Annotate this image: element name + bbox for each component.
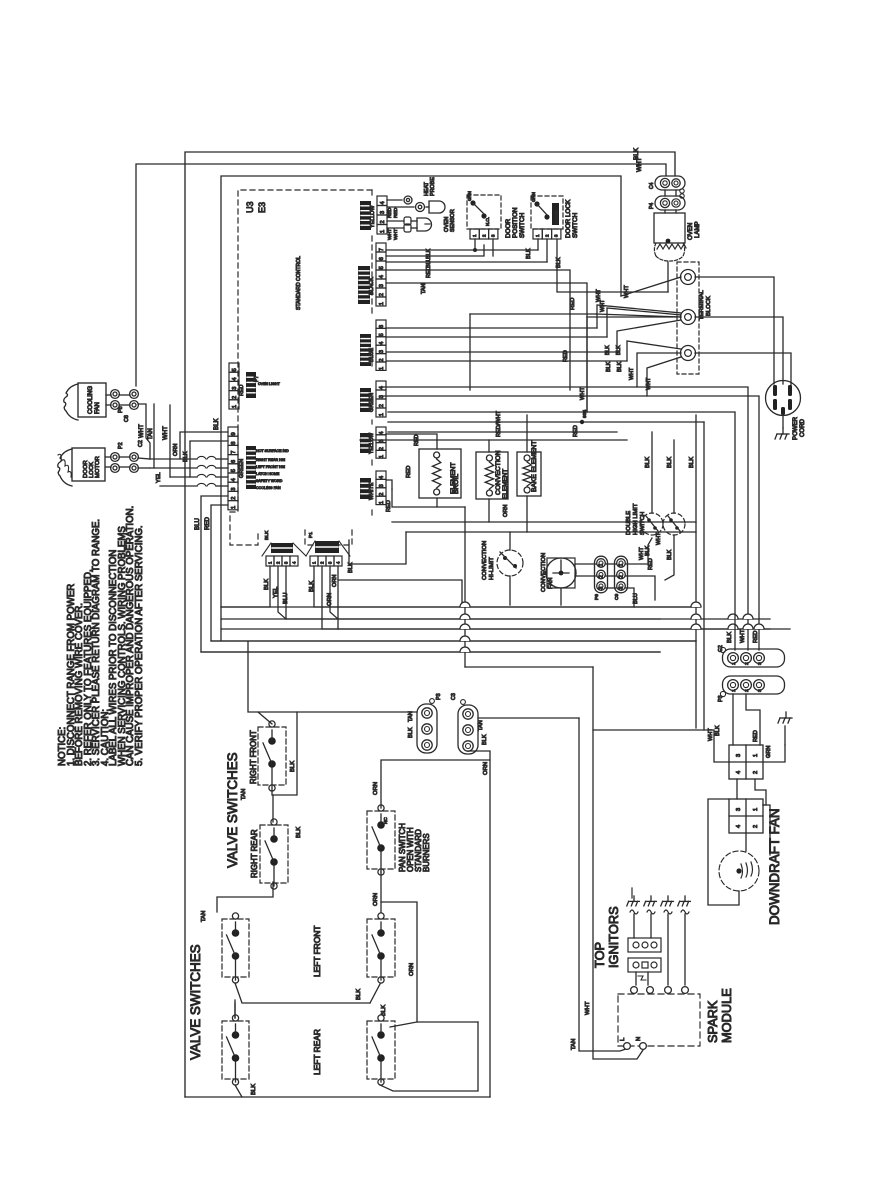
wire blk loop	[190, 441, 228, 477]
wire orn loop	[180, 432, 228, 459]
svg-text:HIGH LIMIT: HIGH LIMIT	[633, 503, 639, 535]
svg-text:N.O.: N.O.	[485, 217, 490, 226]
connector C4	[655, 176, 685, 190]
svg-text:7: 7	[231, 451, 237, 454]
svg-text:1: 1	[731, 689, 737, 692]
svg-text:RED: RED	[204, 517, 211, 530]
wires fan-out terminal 1	[621, 277, 681, 296]
svg-text:P1: P1	[308, 532, 314, 538]
wire left B top	[234, 1000, 236, 1018]
wire RED mid drop	[386, 270, 570, 390]
svg-text:YELLOW: YELLOW	[369, 433, 375, 454]
wires below P1b	[314, 566, 700, 607]
svg-text:3: 3	[599, 586, 605, 589]
svg-text:1: 1	[379, 413, 385, 416]
connector P3 right	[723, 676, 785, 694]
svg-text:WHT: WHT	[162, 426, 169, 440]
svg-text:WHT: WHT	[596, 289, 602, 302]
svg-text:4: 4	[379, 275, 385, 278]
connector P6 white	[376, 471, 386, 479]
wires below P1a	[221, 566, 270, 607]
svg-text:4: 4	[736, 825, 742, 828]
svg-text:LAMP: LAMP	[694, 221, 701, 238]
wire bundle to green connector	[150, 458, 197, 460]
svg-text:BLK: BLK	[689, 457, 695, 468]
connector P2 door lock	[111, 453, 120, 462]
wire frame WHT to connector C4	[136, 164, 666, 386]
svg-text:BLK: BLK	[482, 734, 488, 745]
svg-text:BLK: BLK	[606, 361, 612, 372]
svg-text:LATCH HOME: LATCH HOME	[256, 472, 280, 476]
wire white strip down	[387, 480, 392, 489]
svg-text:CONVECTION: CONVECTION	[482, 541, 488, 580]
left rear valve switch S11	[367, 1021, 395, 1079]
svg-text:STANDARD CONTROL: STANDARD CONTROL	[296, 256, 302, 310]
wires fan-out terminal 3	[627, 341, 681, 361]
svg-text:BLK: BLK	[264, 530, 270, 540]
svg-text:BAKE ELEMENT: BAKE ELEMENT	[531, 441, 538, 492]
wire TAN mid drop	[386, 283, 587, 412]
wire WHT from cooling fan	[138, 404, 150, 459]
connector P3 blue	[376, 320, 386, 328]
svg-text:YELLOW: YELLOW	[370, 205, 376, 228]
ignitor 3	[661, 896, 674, 914]
svg-text:DOWNDRAFT FAN: DOWNDRAFT FAN	[767, 808, 782, 925]
svg-text:BLK: BLK	[183, 451, 189, 462]
svg-text:WHT: WHT	[585, 1001, 591, 1015]
wire mid drop x704	[703, 422, 705, 730]
wire element lower bus 1	[392, 489, 465, 507]
svg-text:5: 5	[379, 333, 385, 336]
svg-text:RED: RED	[753, 631, 759, 643]
oven sensor	[404, 217, 411, 225]
svg-text:ORN: ORN	[373, 782, 379, 795]
svg-text:LOCKED: LOCKED	[555, 210, 559, 224]
svg-text:BLK: BLK	[408, 727, 414, 738]
svg-text:BLK: BLK	[667, 549, 673, 560]
svg-text:TAN: TAN	[408, 711, 414, 722]
wire mid horiz a	[381, 387, 748, 650]
wire TAN long down	[579, 718, 626, 1051]
svg-text:WHT: WHT	[387, 229, 393, 240]
wire left rear bottom	[380, 1022, 478, 1091]
svg-text:BLOCK: BLOCK	[706, 296, 712, 316]
ground power cord	[782, 415, 784, 428]
svg-text:SWITCH: SWITCH	[519, 212, 526, 238]
svg-text:RED/WHT: RED/WHT	[496, 410, 502, 437]
svg-text:VALVE SWITCHES: VALVE SWITCHES	[188, 944, 203, 1060]
svg-text:BLK: BLK	[309, 581, 315, 592]
svg-text:TAN: TAN	[571, 1039, 577, 1050]
wire oven circuit rect	[470, 313, 596, 315]
svg-text:2: 2	[619, 575, 625, 578]
svg-text:CONVECTION: CONVECTION	[495, 450, 502, 495]
svg-text:8: 8	[231, 441, 237, 444]
svg-text:P9: P9	[594, 594, 600, 600]
svg-text:RIGHT FRONT: RIGHT FRONT	[249, 730, 258, 784]
wire C2 to bundle	[138, 458, 150, 459]
wire WHT2	[169, 405, 171, 477]
svg-text:2: 2	[753, 771, 759, 774]
bake element R3	[517, 452, 541, 496]
svg-text:BLK: BLK	[526, 248, 532, 259]
svg-text:RED: RED	[573, 425, 579, 437]
wire mid 3	[388, 431, 617, 433]
svg-text:6: 6	[231, 460, 237, 463]
svg-text:3: 3	[619, 586, 625, 589]
svg-text:COOLING: COOLING	[87, 386, 94, 414]
svg-text:2: 2	[599, 575, 605, 578]
control board U3 E3 dashed outline	[230, 190, 372, 545]
svg-text:4: 4	[379, 342, 385, 345]
svg-text:IGNITORS: IGNITORS	[606, 906, 621, 968]
bus hops	[460, 602, 470, 607]
connector P4 green board	[376, 381, 386, 390]
svg-text:3: 3	[736, 808, 742, 811]
spark module top pins	[631, 987, 638, 994]
wire ORN long right	[468, 751, 490, 1097]
svg-text:BLK: BLK	[617, 361, 623, 372]
svg-text:BLK: BLK	[356, 989, 362, 1000]
wire pan to left front	[380, 872, 382, 916]
svg-text:BLU: BLU	[633, 593, 639, 604]
svg-text:PROBE: PROBE	[430, 177, 436, 196]
connector P9 fan	[595, 556, 608, 593]
wire WHT vertical 587	[586, 317, 588, 412]
svg-text:BLU: BLU	[194, 518, 201, 530]
wire left front bottom orn	[381, 902, 417, 1027]
svg-text:WHT: WHT	[740, 629, 746, 643]
svg-text:OVEN: OVEN	[687, 223, 694, 240]
wire BLU fan	[626, 588, 634, 607]
svg-text:BURNERS: BURNERS	[422, 833, 431, 872]
connector downdraft 4-pin A	[729, 745, 763, 779]
wire fan bottom drop	[560, 588, 562, 605]
svg-text:BLU: BLU	[283, 593, 289, 604]
svg-text:GRN: GRN	[467, 191, 472, 201]
svg-text:BLK: BLK	[290, 761, 296, 772]
svg-text:BLK: BLK	[667, 457, 673, 468]
connector P5 yellow 2	[376, 427, 386, 435]
svg-text:BLK: BLK	[645, 545, 651, 556]
svg-text:2: 2	[744, 662, 750, 665]
bus wire 2	[221, 618, 770, 620]
svg-text:C4: C4	[649, 182, 655, 189]
convection element R2	[476, 452, 508, 499]
wire right rear connections	[272, 795, 274, 822]
downdraft fan enclosure	[708, 799, 739, 905]
terminal block TB1	[677, 262, 699, 374]
svg-text:3: 3	[380, 211, 386, 214]
svg-text:3: 3	[379, 350, 385, 353]
wires yellow strip to probes	[387, 199, 402, 201]
wires ignitors down	[633, 914, 635, 938]
downdraft fan M4	[719, 851, 759, 891]
cooling fan M1	[64, 384, 78, 420]
svg-text:5: 5	[379, 266, 385, 269]
svg-text:GRN: GRN	[766, 746, 772, 758]
svg-text:ORN: ORN	[409, 963, 415, 976]
svg-text:1: 1	[753, 754, 759, 757]
svg-text:WHT: WHT	[138, 424, 145, 438]
wire long vertical to spark feed	[464, 507, 466, 667]
ignitor 4	[678, 896, 691, 914]
wire right front top	[258, 712, 272, 724]
wires hi-limit	[509, 532, 511, 550]
wires element tops	[387, 434, 437, 449]
svg-text:BLK: BLK	[264, 579, 270, 590]
svg-text:2: 2	[232, 396, 238, 399]
svg-text:YEL: YEL	[273, 586, 279, 598]
svg-text:TERMINAL: TERMINAL	[699, 289, 705, 320]
svg-text:3: 3	[379, 484, 385, 487]
wires BLK to hi-limit	[651, 432, 653, 513]
svg-text:POWER: POWER	[792, 416, 799, 440]
wire right front bottom BLK	[272, 712, 297, 795]
svg-text:BLK: BLK	[348, 562, 354, 573]
wire blu label	[386, 245, 484, 256]
svg-text:6: 6	[379, 325, 385, 328]
wires fan-out terminal 2	[597, 305, 681, 328]
svg-text:DOOR: DOOR	[505, 218, 512, 238]
svg-text:WHT: WHT	[624, 285, 630, 298]
svg-text:ORN: ORN	[327, 593, 333, 606]
door position switch S1	[467, 195, 501, 229]
svg-text:WHT: WHT	[646, 377, 652, 390]
svg-text:U3: U3	[245, 201, 255, 213]
svg-text:1: 1	[599, 563, 605, 566]
svg-text:FAN: FAN	[94, 402, 101, 414]
svg-text:BLK: BLK	[296, 827, 302, 838]
convection fan M3	[546, 558, 576, 588]
svg-text:E3: E3	[257, 202, 267, 213]
wire BLU down	[201, 496, 660, 652]
svg-text:C2: C2	[138, 440, 144, 447]
svg-text:C8: C8	[124, 415, 130, 422]
svg-text:RED: RED	[386, 500, 392, 512]
svg-text:LEFT FRONT HSI: LEFT FRONT HSI	[256, 465, 285, 469]
svg-text:1: 1	[380, 230, 386, 233]
svg-text:1: 1	[232, 405, 238, 408]
svg-text:3: 3	[757, 689, 763, 692]
wire mid 1	[388, 412, 735, 650]
wire element lower bus 2	[392, 521, 696, 523]
right rear valve switch S6	[260, 825, 288, 883]
svg-text:YEL: YEL	[156, 472, 162, 483]
right front valve switch S5	[258, 727, 286, 785]
heat probe receptacle	[404, 196, 412, 204]
svg-text:1: 1	[231, 506, 237, 509]
svg-text:MOTOR: MOTOR	[95, 456, 101, 478]
wire block B down	[635, 972, 637, 985]
bus wire 3	[221, 628, 790, 630]
convection hi-limit switch S3	[497, 550, 523, 576]
svg-text:ELEMENT: ELEMENT	[450, 462, 457, 494]
svg-text:P8: P8	[118, 406, 124, 413]
svg-text:GREEN: GREEN	[369, 393, 375, 412]
wires between connectors	[736, 779, 738, 799]
svg-text:ORN: ORN	[332, 575, 338, 587]
connector C8	[130, 390, 139, 399]
ignitor connector block A	[628, 938, 661, 952]
connector C3 valve	[458, 705, 478, 754]
svg-text:4: 4	[232, 377, 238, 380]
left valve switch A S7	[222, 919, 249, 977]
svg-text:GREEN: GREEN	[239, 459, 245, 478]
svg-text:4: 4	[736, 771, 742, 774]
svg-text:3: 3	[231, 487, 237, 490]
svg-text:BLK: BLK	[251, 1084, 257, 1095]
wire element lower bus 3	[406, 531, 696, 533]
door lock switch S2	[531, 196, 563, 229]
svg-text:2: 2	[379, 493, 385, 496]
wire outer frame top BLK	[185, 152, 675, 1097]
svg-text:4: 4	[379, 432, 385, 435]
wire left B top	[234, 1003, 236, 1018]
pan switch S9	[367, 811, 395, 869]
bus wire 4	[211, 640, 696, 642]
svg-text:5: 5	[232, 368, 238, 371]
left valve switch B S8	[222, 1021, 249, 1079]
connector P1 yellow	[377, 196, 387, 206]
svg-text:RED: RED	[426, 267, 432, 278]
svg-text:MODULE: MODULE	[719, 988, 734, 1043]
svg-text:3: 3	[232, 387, 238, 390]
svg-text:SWITCH: SWITCH	[572, 212, 579, 238]
wire TAN mid	[153, 404, 155, 468]
wires black strip to switches	[386, 249, 475, 251]
ignitor 1	[627, 888, 640, 914]
svg-text:3: 3	[736, 754, 742, 757]
connector P8	[111, 390, 120, 399]
wire RED fan	[626, 576, 655, 600]
spark module dashed box	[618, 994, 700, 1046]
svg-text:BLK: BLK	[381, 1005, 387, 1016]
left front valve switch S10	[367, 919, 395, 977]
svg-text:4: 4	[231, 478, 237, 481]
bus wire 1	[221, 606, 700, 608]
connector C9 fan	[615, 556, 628, 593]
svg-text:SAFETY WORD: SAFETY WORD	[256, 479, 283, 483]
ground top ignitor area	[784, 726, 786, 745]
svg-text:FAN: FAN	[548, 578, 554, 589]
wire door lock pin3 to lamp	[557, 239, 668, 292]
svg-text:DOOR LOCK: DOOR LOCK	[565, 199, 572, 238]
connector P1a bottom	[266, 556, 298, 566]
wire mid horiz b	[381, 396, 759, 650]
svg-text:VALVE SWITCHES: VALVE SWITCHES	[225, 752, 240, 868]
svg-text:1: 1	[379, 501, 385, 504]
svg-text:TAN: TAN	[201, 911, 207, 922]
svg-text:BLK: BLK	[426, 248, 432, 259]
svg-text:2: 2	[379, 404, 385, 407]
wires blue strip to terminal	[387, 327, 597, 329]
connector P1b bottom	[310, 556, 342, 566]
svg-text:TAN: TAN	[421, 284, 427, 294]
svg-text:ORN: ORN	[373, 893, 379, 906]
wire mid 2	[388, 421, 704, 423]
svg-text:SPARK: SPARK	[705, 1000, 720, 1043]
svg-text:P3: P3	[436, 693, 442, 700]
svg-text:1: 1	[379, 302, 385, 305]
svg-text:TOP: TOP	[592, 942, 607, 968]
wire left A bottom	[235, 983, 370, 1003]
wire door pos pin3	[492, 239, 494, 256]
svg-text:OVEN LIGHT: OVEN LIGHT	[258, 382, 281, 386]
svg-text:RIGHT REAR HSI: RIGHT REAR HSI	[256, 458, 285, 462]
oven lamp DS1	[654, 213, 685, 243]
connector P4	[655, 196, 685, 210]
broil element R1	[419, 449, 461, 498]
svg-text:2: 2	[380, 220, 386, 223]
svg-text:RED: RED	[570, 298, 576, 310]
svg-text:WHT: WHT	[580, 387, 586, 400]
svg-text:1: 1	[753, 808, 759, 811]
svg-text:2: 2	[379, 447, 385, 450]
svg-text:HI-LIMIT: HI-LIMIT	[489, 557, 495, 580]
svg-text:POSITION: POSITION	[512, 207, 519, 238]
svg-text:P4: P4	[649, 203, 655, 209]
wire mid 4	[360, 439, 627, 441]
svg-text:CONVECTION: CONVECTION	[541, 553, 547, 592]
svg-text:P2: P2	[118, 442, 124, 449]
valve area enclosure	[185, 1096, 490, 1098]
svg-text:934: 934	[582, 410, 588, 418]
svg-text:C9: C9	[614, 593, 620, 600]
connector P7 red	[229, 363, 239, 372]
wires fan to connectors	[575, 563, 596, 565]
svg-text:COOLING FAN: COOLING FAN	[256, 486, 281, 490]
svg-text:LEFT FRONT: LEFT FRONT	[312, 926, 322, 978]
svg-text:2: 2	[379, 293, 385, 296]
svg-text:2: 2	[231, 497, 237, 500]
spark module bottom pins	[624, 1043, 631, 1050]
wires lamp connectors	[664, 190, 666, 196]
svg-text:RED: RED	[406, 466, 412, 478]
connector P2 black	[376, 243, 386, 252]
svg-text:WHT: WHT	[393, 229, 399, 240]
svg-text:5: 5	[231, 469, 237, 472]
svg-text:TAN: TAN	[241, 789, 247, 800]
connector downdraft 4-pin B	[729, 799, 763, 833]
svg-text:1: 1	[619, 563, 625, 566]
bus wire 5	[201, 651, 660, 653]
svg-text:BLK: BLK	[727, 632, 733, 643]
connector P3 valve	[417, 704, 437, 753]
ignitor 2	[644, 896, 657, 914]
wire WHT long down	[593, 667, 643, 1059]
wires terminal to power cord	[695, 277, 774, 384]
svg-text:WHT: WHT	[636, 157, 643, 172]
svg-text:GRN: GRN	[531, 192, 536, 202]
svg-text:C3: C3	[451, 693, 457, 700]
svg-text:BLU: BLU	[426, 257, 432, 268]
svg-text:1: 1	[731, 662, 737, 665]
svg-text:2: 2	[379, 358, 385, 361]
svg-text:1: 1	[379, 455, 385, 458]
svg-text:5. VERIFY PROPER OPERATION AF: 5. VERIFY PROPER OPERATION AFTER SERVICI…	[134, 525, 145, 766]
wires element bottoms	[436, 498, 438, 507]
svg-text:ORN: ORN	[483, 762, 489, 775]
svg-text:WHT: WHT	[708, 728, 714, 741]
svg-text:SWITCH: SWITCH	[640, 512, 646, 535]
svg-text:RED: RED	[239, 385, 245, 396]
svg-text:3: 3	[379, 284, 385, 287]
svg-text:7: 7	[379, 248, 385, 251]
svg-text:RED: RED	[387, 207, 393, 218]
wire left B bottom	[235, 1085, 242, 1097]
power cord plug	[766, 381, 801, 416]
